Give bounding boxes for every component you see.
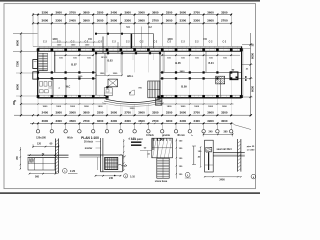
svg-text:120x180: 120x180 <box>36 137 46 140</box>
svg-text:1800: 1800 <box>194 106 200 108</box>
svg-text:B.03: B.03 <box>107 60 113 63</box>
svg-text:2700: 2700 <box>83 119 90 123</box>
svg-text:B.09: B.09 <box>181 85 187 89</box>
svg-text:8 thick: 8 thick <box>146 134 154 137</box>
svg-text:3300: 3300 <box>180 19 187 23</box>
svg-text:1800: 1800 <box>84 106 90 108</box>
svg-text:3300: 3300 <box>180 119 187 123</box>
svg-text:3600: 3600 <box>111 111 118 115</box>
svg-text:3600: 3600 <box>138 19 145 23</box>
svg-text:2400: 2400 <box>180 70 186 73</box>
svg-text:3300: 3300 <box>97 10 104 14</box>
svg-text:560: 560 <box>35 175 40 178</box>
svg-text:3300: 3300 <box>130 108 136 110</box>
svg-text:PLAN 1:100: PLAN 1:100 <box>81 136 99 140</box>
svg-text:30 mm: 30 mm <box>177 134 185 137</box>
svg-text:3600: 3600 <box>180 10 187 14</box>
svg-text:3300: 3300 <box>152 111 159 115</box>
svg-text:3600: 3600 <box>180 111 187 115</box>
svg-text:W.C: W.C <box>66 86 71 89</box>
svg-text:2700: 2700 <box>193 111 200 115</box>
svg-text:3300: 3300 <box>55 19 62 23</box>
svg-text:1800: 1800 <box>42 106 48 108</box>
svg-text:lime paint: lime paint <box>131 138 142 141</box>
svg-text:stone base: stone base <box>155 180 168 183</box>
svg-text:3600: 3600 <box>207 19 214 23</box>
svg-text:3000: 3000 <box>138 10 145 14</box>
svg-text:3300: 3300 <box>55 119 62 123</box>
svg-text:1:20: 1:20 <box>70 169 76 173</box>
svg-text:3000: 3000 <box>69 111 76 115</box>
svg-text:3600: 3600 <box>69 119 76 123</box>
svg-text:2700: 2700 <box>221 19 228 23</box>
svg-text:1800: 1800 <box>167 106 173 108</box>
svg-text:3900: 3900 <box>124 10 131 14</box>
svg-text:granite: granite <box>162 134 171 137</box>
svg-text:@ 1200: @ 1200 <box>247 150 255 152</box>
svg-text:1800: 1800 <box>208 106 214 108</box>
svg-text:3600: 3600 <box>42 119 49 123</box>
svg-text:3600: 3600 <box>55 10 62 14</box>
svg-text:3600: 3600 <box>111 19 118 23</box>
svg-text:1800: 1800 <box>70 106 76 108</box>
svg-text:6000: 6000 <box>250 86 254 92</box>
svg-text:steel rail 40x4: steel rail 40x4 <box>216 148 232 151</box>
svg-text:3F-01: 3F-01 <box>101 57 107 59</box>
svg-text:2400: 2400 <box>193 119 200 123</box>
svg-text:3300: 3300 <box>124 119 131 123</box>
svg-text:3600: 3600 <box>138 111 145 115</box>
svg-text:2400: 2400 <box>219 178 225 181</box>
svg-text:3300: 3300 <box>221 10 228 14</box>
svg-text:2700: 2700 <box>69 10 76 14</box>
svg-text:3600: 3600 <box>166 119 173 123</box>
svg-text:3300: 3300 <box>166 111 173 115</box>
svg-text:3300: 3300 <box>111 119 118 123</box>
svg-text:360: 360 <box>224 131 229 134</box>
svg-text:2400: 2400 <box>42 111 49 115</box>
svg-text:1800: 1800 <box>56 106 62 108</box>
svg-text:pipe 25: pipe 25 <box>247 146 255 148</box>
svg-text:3900: 3900 <box>55 111 62 115</box>
svg-text:2700: 2700 <box>152 119 159 123</box>
svg-text:2700: 2700 <box>152 19 159 23</box>
svg-text:B.05: B.05 <box>175 61 181 65</box>
svg-text:2400: 2400 <box>111 10 118 14</box>
svg-text:3300: 3300 <box>193 19 200 23</box>
svg-text:120: 120 <box>37 142 42 145</box>
svg-text:3600: 3600 <box>166 19 173 23</box>
svg-text:3600: 3600 <box>97 119 104 123</box>
svg-text:60.th: 60.th <box>67 137 73 140</box>
svg-text:1:10: 1:10 <box>130 175 135 178</box>
svg-text:B.04: B.04 <box>208 62 214 65</box>
svg-text:3000: 3000 <box>221 119 228 123</box>
svg-text:2700: 2700 <box>193 10 200 14</box>
svg-text:3300: 3300 <box>221 111 228 115</box>
svg-text:1800: 1800 <box>98 106 104 108</box>
svg-text:3600: 3600 <box>138 119 145 123</box>
svg-text:B.07: B.07 <box>71 63 77 67</box>
svg-text:HALL: HALL <box>127 75 134 78</box>
svg-text:1800: 1800 <box>222 106 228 108</box>
svg-text:6000: 6000 <box>250 53 254 59</box>
svg-text:1800: 1800 <box>167 38 173 41</box>
svg-text:3600: 3600 <box>83 10 90 14</box>
svg-text:7200: 7200 <box>16 61 20 67</box>
svg-text:2700: 2700 <box>124 111 131 115</box>
svg-text:3600: 3600 <box>83 111 90 115</box>
svg-text:3900: 3900 <box>207 119 214 123</box>
svg-text:240: 240 <box>209 131 214 134</box>
svg-text:3300: 3300 <box>124 19 131 23</box>
svg-text:240: 240 <box>109 177 114 180</box>
svg-text:2400: 2400 <box>69 19 76 23</box>
svg-text:3000: 3000 <box>97 19 104 23</box>
svg-text:3600: 3600 <box>207 10 214 14</box>
svg-text:3600: 3600 <box>42 19 49 23</box>
svg-text:3600: 3600 <box>207 111 214 115</box>
svg-text:3900: 3900 <box>83 19 90 23</box>
svg-text:1800: 1800 <box>180 106 186 108</box>
svg-text:20 thick: 20 thick <box>84 141 94 144</box>
svg-text:1800: 1800 <box>52 38 58 41</box>
svg-text:3300: 3300 <box>42 10 49 14</box>
svg-text:mortar: mortar <box>85 147 93 150</box>
svg-text:3300: 3300 <box>97 111 104 115</box>
svg-text:6000: 6000 <box>16 40 20 46</box>
svg-text:6000: 6000 <box>16 84 20 90</box>
svg-text:3300: 3300 <box>166 10 173 14</box>
svg-text:3600: 3600 <box>152 10 159 14</box>
